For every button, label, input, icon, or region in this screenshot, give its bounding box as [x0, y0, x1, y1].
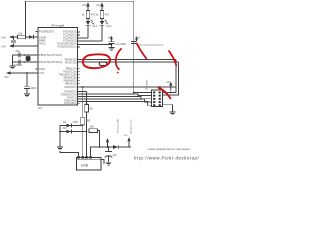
diode VD (reset) — [29, 35, 34, 39]
wire header right gnd — [163, 105, 173, 112]
wire XTAL2 — [13, 61, 39, 63]
svg-text:Внешнее +5V: Внешнее +5V — [131, 119, 133, 133]
wire long PD0 — [78, 59, 177, 61]
wire header right row1 to +5V — [163, 92, 171, 94]
wire VCC decoupling drop — [26, 73, 28, 94]
ground C5 — [106, 162, 112, 165]
capacitor C2 (22p) — [18, 60, 20, 65]
diode VD3 power — [113, 145, 118, 149]
svg-text:HL1: HL1 — [93, 24, 98, 28]
svg-text:+5V: +5V — [1, 36, 6, 40]
wire D+ riser A — [82, 87, 84, 158]
chip right pin stubs — [78, 32, 81, 103]
ground header — [170, 112, 176, 115]
wire gnd to USB pin1 — [60, 151, 79, 158]
wire ISP line 1 (chip to header, jog) — [78, 94, 152, 96]
fuse FU1 (circled component) — [96, 62, 107, 66]
zener VD2 3V6 — [60, 126, 87, 133]
svg-text:VCC: VCC — [39, 71, 45, 75]
resistor R3 (LED2) — [96, 11, 110, 19]
annotation red stroke D — [159, 88, 171, 99]
wire LED2 to PC3 — [78, 40, 103, 42]
svg-text:3V6: 3V6 — [73, 120, 78, 124]
USB connector J1 — [77, 156, 105, 170]
svg-text:+5V: +5V — [82, 3, 87, 7]
ground C4 — [109, 48, 115, 51]
LED HL2 — [100, 19, 112, 42]
svg-text:PB7(XTAL2/TOSC2): PB7(XTAL2/TOSC2) — [39, 60, 62, 64]
wire ISP line 3 — [78, 99, 152, 102]
chip left pin stubs — [36, 32, 39, 69]
wire zener gnd rail — [59, 126, 61, 148]
resistor R2 (LED1) — [82, 11, 96, 19]
pull-up module on reset rail (+5V) — [131, 36, 164, 47]
wire MISO drop right — [175, 87, 177, 93]
ISP header X1 (2x5) — [152, 90, 163, 107]
capacitor C5 electrolytic — [105, 146, 118, 162]
svg-text:+5V: +5V — [124, 135, 128, 137]
wire reset top rail — [26, 1, 134, 46]
resistor R4 68 (on B) — [85, 103, 93, 112]
LED branch 1: +5V arrow — [82, 2, 90, 10]
capacitor C1 (22p) — [16, 49, 21, 58]
wire VBUS from USB pin4 — [91, 147, 132, 158]
resistor R6 1k5 — [89, 125, 100, 147]
wire D- riser B — [78, 91, 87, 93]
wire VCC line — [10, 72, 39, 74]
node A junction — [82, 86, 84, 88]
svg-text:Питание USB: Питание USB — [118, 119, 120, 133]
wire long PD1 drop right — [163, 62, 179, 95]
wire long PD0 drop right — [171, 60, 176, 93]
svg-text:100n: 100n — [31, 86, 37, 90]
svg-text:22p: 22p — [16, 49, 21, 53]
wire AVCC cap line — [78, 44, 112, 46]
node at x160 — [159, 86, 161, 88]
svg-text:PB5(SCK): PB5(SCK) — [65, 82, 77, 86]
svg-text:VCC: VCC — [170, 85, 173, 90]
wire AVCC line — [13, 45, 39, 47]
wire reset rail to header — [134, 43, 152, 92]
svg-text:+5V: +5V — [96, 3, 101, 7]
svg-text:ISP conn: ISP conn — [146, 80, 149, 90]
svg-text:PC6(RESET): PC6(RESET) — [39, 29, 54, 33]
annotation red stroke B — [137, 44, 147, 59]
svg-text:470: 470 — [105, 12, 110, 16]
svg-text:HL2: HL2 — [107, 24, 112, 28]
+5V arrow (AVCC cap) — [108, 36, 113, 42]
svg-text:Ucc GND: Ucc GND — [116, 43, 126, 46]
ground zener rail — [57, 147, 63, 150]
crystal circuit: wire XTAL1 — [13, 54, 39, 56]
svg-text:PC5(ADC5/SCL): PC5(ADC5/SCL) — [57, 44, 76, 48]
wire long PD1 — [78, 61, 179, 63]
zener VD1 3V6 — [60, 120, 83, 127]
svg-text:D2: D2 — [63, 126, 67, 130]
annotation red circle — [83, 54, 110, 68]
capacitor C3 100n — [24, 86, 37, 90]
svg-text:1k5: 1k5 — [90, 125, 95, 129]
svg-text:AVCC: AVCC — [39, 42, 46, 46]
svg-text:схема доработана из оригинала: схема доработана из оригинала — [148, 148, 190, 151]
ground crystal — [10, 66, 16, 69]
resistor R5 68 (on A) — [81, 117, 91, 125]
+5V supply arrow left (AVCC) — [1, 44, 14, 48]
+5V arrow power out — [124, 119, 133, 147]
+5V supply arrow (header) — [166, 81, 173, 93]
svg-text:PB6(XTAL1/TOSC1): PB6(XTAL1/TOSC1) — [39, 53, 62, 57]
annotation red stroke C — [169, 51, 176, 66]
svg-text:+5V: +5V — [4, 75, 9, 79]
annotation red dot — [117, 72, 119, 74]
svg-text:http://www.flickr.deskotop/: http://www.flickr.deskotop/ — [134, 156, 200, 161]
svg-text:D1: D1 — [63, 120, 67, 124]
LED HL1 — [86, 19, 98, 39]
wire reset line — [13, 36, 39, 38]
wire crystal gnd rail — [12, 55, 14, 66]
svg-text:PD7(AIN1): PD7(AIN1) — [64, 101, 76, 105]
wire LED1 to PC2 — [78, 37, 89, 39]
svg-text:10k: 10k — [18, 31, 23, 35]
resistor R (reset pull-up) — [18, 31, 26, 39]
node VCC junction — [26, 72, 28, 74]
svg-text:подтягивающий резистор: подтягивающий резистор — [138, 44, 165, 47]
wire ISP line 4 — [78, 102, 152, 106]
+5V supply arrow left (VCC) — [4, 71, 11, 78]
capacitor C (reset) — [11, 37, 16, 46]
+5V arrow power in — [106, 119, 120, 148]
chip U1 right pin labels — [57, 29, 77, 105]
svg-text:GND: GND — [39, 67, 45, 71]
svg-text:IC1: IC1 — [38, 106, 43, 110]
annotation red stroke A — [116, 49, 122, 70]
svg-text:PD2(INT0): PD2(INT0) — [64, 85, 76, 89]
wire MISO long (to A riser) — [78, 86, 177, 88]
wire ISP line 2 — [78, 97, 152, 99]
crystal Q1 — [14, 54, 30, 67]
ground C3 — [24, 94, 30, 97]
svg-text:USB: USB — [81, 164, 89, 168]
LED branch 2: +5V arrow — [96, 2, 104, 10]
+5V supply arrow top left (reset) — [1, 35, 14, 39]
svg-text:+5V: +5V — [1, 45, 6, 49]
svg-text:PD1(TXD): PD1(TXD) — [65, 61, 77, 65]
chip U1 left pin labels — [39, 29, 62, 75]
svg-text:4u7: 4u7 — [113, 153, 118, 157]
chip U1 ATmega8 body — [38, 23, 78, 105]
svg-text:ATmega8: ATmega8 — [51, 23, 64, 27]
svg-text:+5V: +5V — [166, 81, 171, 84]
capacitor C4 (Ucc-GND) — [109, 42, 126, 48]
node reset-header junction — [133, 92, 135, 94]
